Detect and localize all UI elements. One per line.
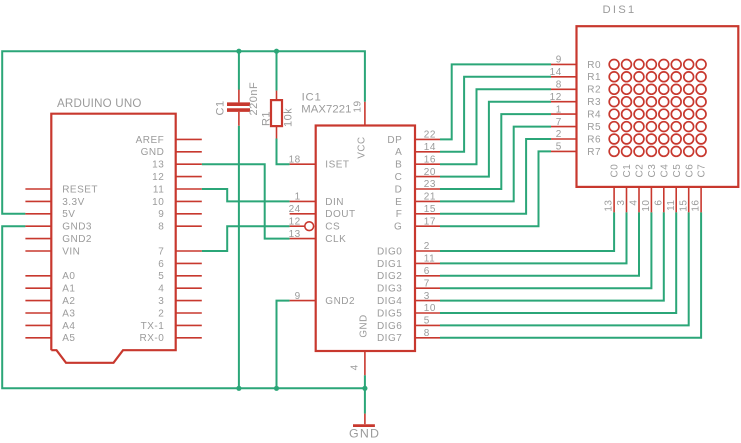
- svg-text:AREF: AREF: [136, 135, 165, 146]
- Arduino pin AREF: [176, 138, 202, 140]
- IC1 pin 2 DIG0: [415, 250, 440, 252]
- svg-text:C4: C4: [659, 164, 670, 178]
- svg-text:2: 2: [556, 129, 562, 140]
- DIS1 pin 5 R7: [551, 150, 577, 152]
- svg-text:220nF: 220nF: [248, 82, 260, 116]
- svg-text:C3: C3: [647, 164, 658, 178]
- DIS1 pin 2 R6: [551, 138, 577, 140]
- wire IC1 A to DIS1 R1: [440, 77, 551, 152]
- DIS1 pin 3 C1: [626, 187, 628, 212]
- Arduino pin RESET: [25, 188, 51, 190]
- svg-text:21: 21: [424, 192, 436, 203]
- svg-text:G: G: [394, 222, 402, 233]
- Arduino pin 9: [176, 213, 202, 215]
- wire IC1 DIG5 to DIS1 C5: [440, 212, 676, 313]
- resistor R1: [271, 100, 282, 126]
- DIS1 pin 16 C7: [700, 187, 702, 212]
- DIS1 pin 7 R5: [551, 126, 577, 128]
- wire VCC branch to R1 top: [276, 51, 278, 90]
- wire R1 bottom to IC1 ISET pin 18: [277, 139, 290, 165]
- wire IC1 E to DIS1 R5: [440, 127, 551, 202]
- svg-text:8: 8: [424, 328, 430, 339]
- svg-text:C1: C1: [622, 164, 633, 178]
- svg-text:ISET: ISET: [325, 160, 349, 171]
- svg-text:4: 4: [158, 284, 164, 295]
- svg-text:12: 12: [152, 172, 164, 183]
- svg-text:C7: C7: [697, 164, 708, 178]
- svg-text:12: 12: [550, 92, 562, 103]
- DIS1 LED matrix body: [577, 26, 739, 187]
- svg-text:10: 10: [641, 200, 652, 212]
- svg-text:22: 22: [424, 130, 436, 141]
- IC1 pin 24 DOUT: [290, 213, 316, 215]
- Arduino pin 13: [176, 163, 202, 165]
- Arduino pin 3: [176, 300, 202, 302]
- junction GND/GND2: [274, 386, 279, 391]
- wire IC1 F to DIS1 R6: [440, 139, 551, 214]
- Arduino pin A4: [25, 324, 51, 326]
- svg-text:15: 15: [678, 200, 689, 212]
- DIS1 LED row R4: [609, 109, 619, 119]
- svg-text:A4: A4: [62, 321, 75, 332]
- wire Arduino pin 11 to IC1 DIN: [202, 189, 290, 201]
- Arduino pin 4: [176, 287, 202, 289]
- svg-text:DIG7: DIG7: [377, 333, 402, 344]
- wire IC1 DIG6 to DIS1 C6: [440, 212, 689, 325]
- svg-text:DIS1: DIS1: [603, 4, 637, 16]
- svg-text:VCC: VCC: [356, 136, 367, 158]
- wire IC1 C to DIS1 R3: [440, 102, 551, 177]
- svg-text:GND2: GND2: [62, 234, 92, 245]
- IC IC1 MAX7221 body: [316, 126, 415, 352]
- svg-text:13: 13: [604, 200, 615, 212]
- wire GND from IC1 pin 4 to ground symbol: [364, 375, 366, 413]
- svg-text:4: 4: [350, 364, 361, 370]
- svg-text:RX-0: RX-0: [140, 333, 165, 344]
- svg-text:A0: A0: [62, 271, 75, 282]
- svg-text:GND: GND: [141, 147, 165, 158]
- svg-text:20: 20: [424, 167, 436, 178]
- svg-text:C1: C1: [215, 100, 227, 115]
- DIS1 pin 13 C0: [613, 187, 615, 212]
- svg-text:10k: 10k: [283, 108, 295, 127]
- svg-text:R1: R1: [260, 111, 272, 126]
- svg-text:10: 10: [152, 197, 164, 208]
- svg-text:6: 6: [158, 259, 164, 270]
- IC1 pin 5 DIG6: [415, 324, 440, 326]
- DIS1 LED row R3: [609, 97, 619, 107]
- junction GND/pin4: [362, 386, 367, 391]
- svg-text:6: 6: [424, 266, 430, 277]
- svg-text:DIG3: DIG3: [377, 284, 402, 295]
- IC1 pin 12 CS: [290, 225, 305, 227]
- DIS1 pin 12 R3: [551, 101, 577, 103]
- svg-text:R4: R4: [587, 110, 601, 121]
- wire GND branch to IC1 GND2 pin 9: [277, 301, 290, 389]
- junction VCC/C1: [236, 49, 241, 54]
- Arduino pin 5: [176, 275, 202, 277]
- DIS1 LED row R0: [609, 60, 619, 70]
- wire GND net: Arduino GND3 to bottom rail: [2, 226, 365, 388]
- DIS1 pin 8 R2: [551, 88, 577, 90]
- Arduino pin A3: [25, 312, 51, 314]
- Arduino pin VIN: [25, 250, 51, 252]
- Arduino pin GND2: [25, 238, 51, 240]
- svg-text:2: 2: [158, 308, 164, 319]
- svg-text:15: 15: [424, 204, 436, 215]
- svg-text:5: 5: [424, 316, 430, 327]
- svg-text:R5: R5: [587, 122, 601, 133]
- svg-text:14: 14: [424, 142, 436, 153]
- DIS1 pin 6 C4: [663, 187, 665, 212]
- svg-text:5V: 5V: [62, 209, 75, 220]
- svg-text:3.3V: 3.3V: [62, 197, 85, 208]
- Arduino pin 11: [176, 188, 202, 190]
- svg-text:DOUT: DOUT: [325, 209, 355, 220]
- svg-text:C5: C5: [672, 164, 683, 178]
- IC1 pin 3 DIG4: [415, 300, 440, 302]
- IC1 pin 21 E: [415, 200, 440, 202]
- DIS1 pin 11 C5: [675, 187, 677, 212]
- IC1 pin 23 D: [415, 188, 440, 190]
- wire IC1 DIG1 to DIS1 C1: [440, 212, 627, 263]
- Arduino pin 2: [176, 312, 202, 314]
- svg-text:3: 3: [424, 291, 430, 302]
- Arduino pin 7: [176, 250, 202, 252]
- svg-text:DIG2: DIG2: [377, 271, 402, 282]
- svg-text:A: A: [395, 147, 402, 158]
- svg-text:19: 19: [352, 100, 363, 112]
- wire VCC branch to C1 top: [238, 51, 240, 90]
- wire IC1 DIG3 to DIS1 C3: [440, 212, 651, 288]
- Arduino pin A5: [25, 337, 51, 339]
- wire VCC net: Arduino 5V to top rail to IC1 VCC pin 19: [2, 51, 365, 214]
- svg-text:13: 13: [152, 160, 164, 171]
- svg-text:C: C: [395, 172, 403, 183]
- IC1 pin 16 B: [415, 163, 440, 165]
- svg-text:11: 11: [666, 200, 677, 211]
- svg-text:9: 9: [158, 209, 164, 220]
- svg-text:3: 3: [158, 296, 164, 307]
- Arduino pin A2: [25, 300, 51, 302]
- svg-text:23: 23: [424, 179, 436, 190]
- ground: [364, 414, 366, 425]
- svg-text:11: 11: [153, 184, 164, 195]
- svg-text:DIG5: DIG5: [377, 308, 402, 319]
- svg-text:R1: R1: [587, 72, 601, 83]
- svg-text:1: 1: [295, 192, 301, 203]
- svg-text:MAX7221: MAX7221: [301, 103, 351, 115]
- Arduino pin 8: [176, 225, 202, 227]
- svg-text:ARDUINO UNO: ARDUINO UNO: [57, 97, 142, 110]
- IC1 pin 13 CLK: [290, 238, 316, 240]
- IC1 pin 15 F: [415, 213, 440, 215]
- svg-text:R6: R6: [587, 134, 601, 145]
- svg-text:GND: GND: [349, 427, 380, 441]
- svg-text:DIG0: DIG0: [377, 246, 402, 257]
- DIS1 LED row R5: [609, 122, 619, 132]
- svg-text:R7: R7: [587, 147, 601, 158]
- wire IC1 D to DIS1 R4: [440, 114, 551, 189]
- svg-text:R0: R0: [587, 60, 601, 71]
- svg-text:16: 16: [424, 154, 436, 165]
- Arduino pin 12: [176, 176, 202, 178]
- wire IC1 DIG4 to DIS1 C4: [440, 212, 664, 300]
- wire IC1 DIG0 to DIS1 C0: [440, 212, 614, 251]
- svg-text:5: 5: [158, 271, 164, 282]
- svg-text:7: 7: [556, 117, 562, 128]
- Arduino pin GND: [176, 151, 202, 153]
- Arduino pin 5V: [25, 213, 51, 215]
- IC1 pin 8 DIG7: [415, 337, 440, 339]
- svg-text:R2: R2: [587, 85, 601, 96]
- svg-text:VIN: VIN: [62, 246, 80, 257]
- wire IC1 DP to DIS1 R0: [440, 64, 551, 139]
- IC1 pin 10 DIG5: [415, 312, 440, 314]
- wire IC1 DIG7 to DIS1 C7: [440, 212, 701, 337]
- svg-text:1: 1: [556, 104, 562, 115]
- svg-text:C6: C6: [684, 164, 695, 178]
- IC1 pin 19 VCC: [364, 102, 366, 126]
- DIS1 pin 9 R0: [551, 63, 577, 65]
- svg-text:10: 10: [424, 303, 436, 314]
- svg-text:RESET: RESET: [62, 184, 98, 195]
- IC1 pin 9 GND2: [290, 300, 316, 302]
- svg-text:F: F: [396, 209, 403, 220]
- svg-text:4: 4: [629, 200, 640, 206]
- svg-text:5: 5: [556, 142, 562, 153]
- junction GND/C1: [236, 386, 241, 391]
- svg-text:DIN: DIN: [325, 197, 344, 208]
- svg-text:A2: A2: [62, 296, 75, 307]
- svg-text:16: 16: [691, 200, 702, 212]
- svg-text:C2: C2: [635, 164, 646, 178]
- DIS1 LED row R2: [609, 84, 619, 94]
- DIS1 pin 1 R4: [551, 113, 577, 115]
- svg-text:18: 18: [289, 154, 301, 165]
- wire Arduino pin 13 to IC1 CLK: [202, 164, 290, 238]
- IC1 pin 7 DIG3: [415, 287, 440, 289]
- svg-text:3: 3: [616, 200, 627, 206]
- wire IC1 B to DIS1 R2: [440, 89, 551, 164]
- svg-text:GND3: GND3: [62, 222, 92, 233]
- svg-text:12: 12: [289, 216, 301, 227]
- svg-text:CS: CS: [325, 222, 340, 233]
- svg-text:DP: DP: [387, 135, 402, 146]
- Arduino pin 3.3V: [25, 200, 51, 202]
- svg-text:7: 7: [158, 246, 164, 257]
- junction VCC/R1: [274, 49, 279, 54]
- svg-text:R3: R3: [587, 97, 601, 108]
- IC1 pin 17 G: [415, 225, 440, 227]
- svg-text:CLK: CLK: [325, 234, 346, 245]
- DIS1 pin 4 C2: [638, 187, 640, 212]
- Arduino pin GND3: [25, 225, 51, 227]
- IC1 pin 18 ISET: [290, 163, 316, 165]
- DIS1 LED row R6: [609, 134, 619, 144]
- svg-text:GND2: GND2: [325, 296, 355, 307]
- svg-text:8: 8: [556, 80, 562, 91]
- svg-text:B: B: [395, 160, 402, 171]
- DIS1 pin 14 R1: [551, 76, 577, 78]
- svg-text:6: 6: [653, 200, 664, 206]
- DIS1 LED row R1: [609, 72, 619, 82]
- IC1 pin 4 GND: [364, 351, 366, 375]
- wire GND branch from C1 bottom: [238, 126, 240, 389]
- DIS1 pin 10 C3: [650, 187, 652, 212]
- wire Arduino pin 7 to IC1 CS: [202, 226, 290, 251]
- IC1 pin 11 DIG1: [415, 262, 440, 264]
- svg-text:17: 17: [424, 216, 436, 227]
- svg-text:IC1: IC1: [302, 92, 322, 104]
- svg-text:A5: A5: [62, 333, 75, 344]
- svg-text:24: 24: [289, 204, 301, 215]
- svg-text:11: 11: [424, 254, 435, 265]
- svg-text:DIG6: DIG6: [377, 321, 402, 332]
- Arduino pin RX-0: [176, 337, 202, 339]
- svg-text:A1: A1: [62, 284, 75, 295]
- Arduino pin A1: [25, 287, 51, 289]
- svg-text:7: 7: [424, 278, 430, 289]
- svg-text:8: 8: [158, 222, 164, 233]
- IC1 pin 20 C: [415, 176, 440, 178]
- svg-text:A3: A3: [62, 308, 75, 319]
- svg-text:TX-1: TX-1: [141, 321, 165, 332]
- svg-text:D: D: [395, 184, 403, 195]
- Arduino pin A0: [25, 275, 51, 277]
- Arduino pin TX-1: [176, 324, 202, 326]
- capacitor C1: [227, 102, 250, 106]
- Arduino pin 6: [176, 262, 202, 264]
- IC1 pin 22 DP: [415, 138, 440, 140]
- IC1 pin 6 DIG2: [415, 275, 440, 277]
- svg-text:C0: C0: [610, 164, 621, 178]
- IC1 pin 1 DIN: [290, 200, 316, 202]
- svg-text:DIG1: DIG1: [377, 259, 402, 270]
- svg-text:14: 14: [550, 67, 562, 78]
- svg-text:9: 9: [295, 291, 301, 302]
- DIS1 LED row R7: [609, 147, 619, 157]
- svg-text:9: 9: [556, 55, 562, 66]
- DIS1 pin 15 C6: [688, 187, 690, 212]
- svg-text:DIG4: DIG4: [377, 296, 402, 307]
- svg-text:E: E: [395, 197, 402, 208]
- svg-text:GND: GND: [358, 314, 369, 337]
- wire IC1 G to DIS1 R7: [440, 151, 551, 226]
- IC1 pin 14 A: [415, 151, 440, 153]
- svg-text:2: 2: [424, 241, 430, 252]
- wire IC1 DIG2 to DIS1 C2: [440, 212, 639, 275]
- Arduino pin 10: [176, 200, 202, 202]
- Arduino UNO module body: [51, 114, 175, 363]
- svg-text:13: 13: [289, 229, 301, 240]
